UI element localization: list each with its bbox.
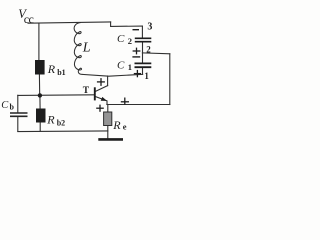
wire left rail upper	[38, 23, 40, 60]
svg-text:1: 1	[144, 71, 149, 81]
resistor Rb1	[35, 60, 45, 75]
wire node1 tap L to C1	[82, 74, 142, 76]
wire left rail Rb1 to base node	[38, 75, 40, 96]
svg-text:R: R	[46, 112, 55, 126]
transistor Q1 base bar	[94, 87, 96, 100]
wire emitter diagonal	[96, 97, 107, 105]
svg-text:C: C	[117, 60, 125, 72]
polarity plus below C1	[134, 70, 141, 77]
capacitor Cb plates	[10, 113, 28, 116]
polarity plus below C2	[133, 48, 141, 55]
wire left rail base node to Rb2	[39, 95, 41, 108]
resistor Rb2	[36, 109, 46, 123]
polarity minus above C2	[133, 29, 140, 31]
wire C2 C1 stem middle	[142, 43, 144, 53]
svg-text:e: e	[123, 121, 127, 131]
svg-text:b2: b2	[57, 118, 65, 127]
inductor L coil	[74, 23, 82, 75]
svg-text:b: b	[10, 103, 15, 112]
transistor Q1 emitter arrow	[101, 97, 107, 101]
wire left rail Rb2 to bottom	[39, 123, 41, 132]
wire Re stem top	[107, 105, 109, 113]
polarity plus collector	[97, 78, 105, 86]
svg-text:R: R	[112, 118, 121, 132]
wire right rail	[169, 54, 171, 105]
wire Re stem bottom	[107, 126, 109, 139]
capacitor C2 plates	[135, 38, 152, 41]
svg-text:b1: b1	[57, 68, 65, 77]
wire collector diagonal	[96, 86, 108, 92]
polarity plus emitter wire	[121, 98, 129, 105]
svg-text:2: 2	[146, 44, 151, 54]
wire Cb stem top	[17, 95, 19, 112]
wire node2 to right rail	[142, 52, 169, 55]
svg-text:3: 3	[147, 22, 152, 33]
wire C2 stem top	[141, 26, 143, 38]
wire Vcc top rail left	[28, 22, 111, 23]
polarity plus emitter left	[96, 105, 104, 112]
svg-text:2: 2	[128, 36, 132, 46]
svg-text:T: T	[83, 86, 90, 96]
capacitor C1 plates	[135, 63, 152, 67]
svg-text:1: 1	[128, 62, 132, 72]
svg-text:C: C	[117, 33, 125, 45]
wire bottom rail	[18, 130, 108, 133]
svg-text:L: L	[82, 41, 91, 56]
wire C1 stem bottom	[142, 68, 144, 74]
wire Cb stem bottom	[17, 117, 19, 131]
ground	[98, 138, 123, 141]
wire collector drop	[107, 76, 109, 86]
wire top rail jog to C2	[111, 22, 143, 27]
wire base	[18, 94, 94, 97]
wire emitter to right rail	[107, 104, 170, 106]
svg-text:C: C	[1, 100, 9, 111]
polarity minus above C1	[132, 56, 140, 58]
svg-text:R: R	[47, 62, 56, 76]
svg-text:cc: cc	[24, 12, 34, 26]
resistor Re	[104, 112, 112, 126]
node base junction dot	[38, 93, 42, 97]
